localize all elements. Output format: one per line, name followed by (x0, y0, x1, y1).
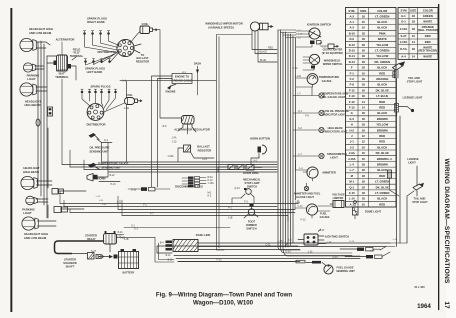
label cigar lighter (322, 49, 343, 55)
svg-text:18: 18 (362, 197, 366, 201)
svg-text:Q-10: Q-10 (234, 187, 240, 190)
svg-text:BALLAST: BALLAST (197, 145, 210, 149)
svg-text:L-14: L-14 (393, 239, 398, 241)
svg-text:1-14: 1-14 (388, 159, 393, 161)
svg-text:BLACK: BLACK (377, 26, 387, 30)
svg-text:SYM.: SYM. (348, 9, 355, 13)
horn ring contacts (228, 165, 254, 171)
svg-text:18: 18 (362, 123, 366, 127)
svg-text:F-13: F-13 (349, 94, 355, 98)
wire stop lamp switch leads (232, 197, 254, 204)
svg-text:ORANGE: ORANGE (376, 77, 388, 81)
label oil pressure sending unit (89, 146, 109, 154)
sidebar title WIRING DIAGRAM-SPECIFICATIONS (443, 158, 450, 283)
svg-text:18: 18 (362, 94, 366, 98)
dash line boundary (217, 35, 253, 251)
svg-text:J-1: J-1 (350, 140, 354, 144)
svg-text:D-10: D-10 (349, 49, 356, 53)
label coil (V8) (142, 22, 149, 26)
wire horn leads (98, 172, 121, 186)
svg-text:BLACK: BLACK (377, 197, 387, 201)
svg-text:TEMPERATURE AND: TEMPERATURE AND (322, 92, 348, 96)
wire harness group A left tails (62, 79, 108, 172)
wire temp gauge leads (296, 78, 313, 87)
svg-text:SPARK PLUGS: SPARK PLUGS (91, 85, 111, 89)
wire regulator leads (160, 81, 196, 134)
headlight high/low beam lower (22, 217, 38, 230)
wire rear lamps vertical run (397, 78, 418, 247)
spark plugs right bank (83, 31, 119, 53)
high beam indicator light (319, 127, 324, 132)
label engine (166, 90, 176, 94)
svg-text:14: 14 (362, 106, 366, 110)
starter solenoid (88, 253, 114, 260)
wire cigar lighter lead (320, 45, 328, 47)
svg-text:D-5A: D-5A (400, 47, 407, 51)
wire distributor V8 to coil (134, 44, 141, 53)
svg-text:14: 14 (412, 55, 416, 59)
svg-text:D-13: D-13 (349, 60, 356, 64)
label J-2A (172, 137, 177, 140)
svg-text:RESISTOR: RESISTOR (136, 59, 149, 63)
svg-text:J-2: J-2 (350, 145, 354, 149)
wire alternator to harness (47, 56, 76, 80)
label engine to ground cable (172, 74, 193, 84)
svg-text:LIGHT: LIGHT (408, 161, 416, 165)
wire group B risers (288, 200, 298, 221)
svg-text:12: 12 (362, 134, 366, 138)
svg-text:TERMINAL: TERMINAL (70, 54, 84, 58)
label high beam indicator light (325, 126, 348, 134)
svg-text:J-10A: J-10A (348, 157, 356, 161)
wire left risers to group B (60, 192, 122, 216)
svg-text:OIL GAUGE LIGHT: OIL GAUGE LIGHT (322, 95, 345, 99)
wire rear bottom bends (380, 243, 407, 250)
label ballast resistor (197, 145, 211, 153)
label dome light (365, 210, 382, 214)
horn (engine bay) (87, 174, 98, 182)
wire coil lead (131, 30, 160, 81)
svg-text:RIGHT BANK: RIGHT BANK (87, 20, 105, 24)
wire headlight1 leads (36, 42, 50, 48)
alternator (54, 42, 72, 71)
disconnect plugs stack (188, 177, 200, 188)
ammeter (307, 167, 318, 178)
svg-text:D-14: D-14 (286, 252, 292, 254)
svg-text:BATTERY: BATTERY (123, 271, 135, 275)
label J-2 (297, 38, 301, 40)
wire lower connectors to harness (48, 128, 86, 218)
wire lighting switch labels (288, 230, 332, 244)
svg-text:HIGH BEAM: HIGH BEAM (328, 126, 343, 130)
temperature and oil gauge light (319, 93, 324, 98)
label fuel gauge (320, 212, 330, 220)
svg-text:BLACK: BLACK (377, 66, 387, 70)
wire harness horizontal group B (60, 201, 298, 219)
oil pressure sending unit symbol (89, 133, 100, 140)
coil V8 (140, 26, 158, 34)
svg-text:F-8: F-8 (350, 83, 355, 87)
label S-1 relay wire (131, 226, 135, 228)
wire horn button to ring (251, 158, 259, 165)
svg-text:BLACK: BLACK (377, 20, 387, 24)
svg-text:DOME LIGHT: DOME LIGHT (365, 210, 382, 214)
wire lower lamp leads (36, 181, 56, 226)
label starter solenoid shaft (63, 258, 77, 269)
label J-1B lower (124, 238, 129, 241)
label 1-7 (297, 30, 301, 32)
label J-10 (172, 141, 177, 144)
svg-text:F: F (351, 66, 353, 70)
svg-text:COLOR: COLOR (423, 9, 433, 13)
label mechanical stop lamp switch (243, 178, 261, 189)
svg-text:F-13: F-13 (349, 106, 355, 110)
svg-text:Q-13: Q-13 (332, 257, 338, 259)
license light upper (395, 104, 415, 117)
svg-text:LIGHT: LIGHT (330, 156, 338, 160)
svg-text:SWITCH: SWITCH (246, 226, 256, 230)
label alternator (56, 38, 75, 42)
svg-text:DK. BLUE: DK. BLUE (376, 151, 389, 155)
figure caption line 2 (193, 300, 254, 307)
label headlight high and low beam (upper left) (29, 27, 53, 35)
svg-text:J-2A: J-2A (172, 137, 177, 140)
rear harness connectors (340, 248, 390, 259)
svg-text:LIMITER: LIMITER (333, 196, 344, 200)
svg-text:1964: 1964 (417, 303, 431, 310)
wire relay feeds (117, 228, 231, 238)
svg-text:STARTER: STARTER (64, 258, 76, 262)
mechanical stop lamp switch (241, 188, 254, 198)
svg-text:COIL: COIL (126, 93, 133, 97)
svg-text:18: 18 (362, 60, 366, 64)
svg-text:GROUND CABLE: GROUND CABLE (172, 79, 193, 82)
label B-4 (160, 243, 164, 245)
svg-text:B-12: B-12 (110, 175, 116, 177)
svg-text:LICENSE: LICENSE (407, 157, 419, 161)
svg-text:STOP LAMP: STOP LAMP (244, 181, 259, 185)
spark plugs (six) (81, 89, 117, 110)
svg-text:18: 18 (362, 49, 366, 53)
label battery BAT terminal (55, 69, 69, 79)
svg-text:WIPER SWITCH: WIPER SWITCH (323, 62, 343, 66)
connector left lower A (52, 189, 64, 195)
svg-text:G-5: G-5 (349, 117, 354, 121)
label 1-14 (388, 159, 393, 161)
svg-text:S-1: S-1 (134, 228, 138, 231)
voltage limiter (330, 201, 344, 208)
svg-text:TAIL AND: TAIL AND (414, 197, 426, 201)
svg-text:DISTRIBUTOR: DISTRIBUTOR (97, 50, 116, 54)
connector left lower B (54, 207, 68, 213)
label temperature gauge sending unit (98, 162, 129, 170)
svg-text:WIRING DIAGRAM—SPECIFICATIONS: WIRING DIAGRAM—SPECIFICATIONS (443, 158, 450, 283)
svg-text:BLACK: BLACK (377, 83, 387, 87)
svg-text:GREEN: GREEN (423, 14, 433, 18)
svg-text:RED: RED (379, 174, 385, 178)
ballast resistor (184, 145, 192, 152)
temperature sending unit symbol (88, 163, 100, 170)
starter relay (104, 231, 117, 252)
distributor (V8) (117, 39, 134, 56)
svg-text:YELLOW: YELLOW (376, 54, 388, 58)
wire oil sender to harness (97, 139, 112, 162)
svg-text:F-13: F-13 (217, 260, 222, 262)
svg-text:STOP LIGHT: STOP LIGHT (412, 200, 428, 204)
wire ignition leads (296, 31, 322, 47)
label Q-10 (234, 187, 240, 190)
low oil pressure indicator light (319, 110, 324, 115)
headlight high/low beam upper (20, 38, 36, 51)
svg-text:17: 17 (443, 301, 450, 309)
label F-2 dimmer (244, 202, 248, 204)
speedometer light (319, 153, 324, 158)
label lighting switch (325, 235, 349, 239)
svg-text:SIZE: SIZE (360, 9, 366, 13)
svg-text:STOP LIGHT: STOP LIGHT (407, 80, 423, 84)
label B-14 (166, 255, 172, 257)
label parking light (lower) (22, 208, 35, 216)
svg-text:LEFT BANK: LEFT BANK (87, 70, 103, 74)
label horn ring (243, 171, 258, 175)
svg-text:LIGHTING SWITCH: LIGHTING SWITCH (325, 235, 349, 239)
label distributor (six) (86, 123, 105, 127)
wire rear harness group (157, 243, 390, 262)
svg-text:RED: RED (379, 106, 385, 110)
svg-text:RED: RED (425, 34, 431, 38)
svg-text:OIL PRESSURE: OIL PRESSURE (90, 146, 110, 150)
label headlight high beam (upper) (24, 100, 41, 108)
svg-text:WINDSHIELD WIPER MOTOR: WINDSHIELD WIPER MOTOR (205, 22, 242, 26)
svg-text:SHAFT: SHAFT (66, 265, 75, 269)
svg-text:D-14: D-14 (350, 241, 356, 243)
license light lower connector (388, 170, 400, 196)
battery (119, 249, 139, 269)
svg-text:DIMMER: DIMMER (246, 223, 257, 227)
svg-text:J-13: J-13 (202, 158, 207, 161)
svg-text:LOW OIL PRESSURE: LOW OIL PRESSURE (323, 109, 349, 113)
svg-text:LIGHT: LIGHT (27, 77, 36, 81)
svg-text:HORN RING: HORN RING (243, 171, 258, 175)
svg-text:SENDING UNIT: SENDING UNIT (336, 269, 355, 273)
distributor (six) (87, 104, 104, 121)
svg-text:18: 18 (412, 19, 416, 23)
svg-text:18: 18 (412, 27, 416, 31)
svg-text:10: 10 (362, 202, 366, 206)
svg-text:GAUGE LIGHT: GAUGE LIGHT (296, 195, 314, 199)
wire main dash harness bundle (278, 30, 360, 256)
connector pair D-10 (128, 187, 170, 191)
svg-text:FUEL: FUEL (320, 212, 327, 216)
svg-text:B-6A: B-6A (208, 176, 214, 179)
svg-text:TAIL AND: TAIL AND (408, 76, 420, 80)
label spark plugs left bank (85, 67, 105, 75)
svg-text:STARTER: STARTER (85, 233, 97, 237)
bulkhead connector block (166, 240, 199, 252)
label coil (six) (126, 93, 133, 97)
label battery (123, 271, 135, 275)
wire ammeter leads (296, 160, 313, 181)
wire oil light lead (293, 111, 319, 118)
wire left harness verticals (38, 41, 47, 218)
svg-text:18: 18 (362, 77, 366, 81)
svg-text:L-11: L-11 (117, 201, 122, 203)
svg-text:RED: RED (379, 134, 385, 138)
svg-text:AMMETER AND FUEL: AMMETER AND FUEL (294, 192, 321, 196)
label tail and stop light upper (407, 76, 423, 84)
svg-text:(IF SO EQUIPPED): (IF SO EQUIPPED) (322, 52, 343, 55)
label field FLD terminal (70, 48, 84, 58)
svg-text:RED: RED (425, 40, 431, 44)
svg-text:H-1: H-1 (401, 14, 406, 18)
svg-text:18: 18 (362, 83, 366, 87)
svg-text:7-10A: 7-10A (208, 182, 215, 185)
svg-text:FOOT: FOOT (248, 220, 256, 224)
svg-text:X-15: X-15 (349, 191, 355, 195)
label horn (98, 177, 106, 181)
windshield wiper switch (309, 54, 319, 68)
svg-text:TEMPERATURE: TEMPERATURE (319, 75, 339, 79)
svg-text:RESISTOR: RESISTOR (198, 148, 212, 152)
svg-text:L-13: L-13 (320, 230, 325, 232)
svg-text:MECHANICAL: MECHANICAL (243, 178, 261, 182)
svg-text:LT. GREEN: LT. GREEN (375, 49, 389, 53)
svg-text:16: 16 (362, 145, 366, 149)
engine ground arrow (167, 84, 176, 90)
label foot dimmer switch (246, 220, 257, 231)
grommet on left harness (36, 119, 40, 126)
svg-text:ENGINE TO: ENGINE TO (175, 75, 189, 79)
label dash line (196, 233, 211, 237)
svg-text:FUEL GAUGE: FUEL GAUGE (337, 266, 354, 270)
wire bundle top fanout (278, 30, 296, 38)
svg-text:SIZE: SIZE (410, 9, 416, 13)
svg-text:(WHL. TRACER): (WHL. TRACER) (418, 28, 438, 32)
label license light lower (407, 157, 419, 165)
battery ground cable loop (55, 241, 104, 254)
svg-text:14: 14 (412, 40, 416, 44)
svg-text:18: 18 (362, 117, 366, 121)
svg-text:12: 12 (362, 140, 366, 144)
label distributor (V8) (97, 50, 116, 54)
svg-text:18: 18 (362, 43, 366, 47)
svg-text:G: G (351, 111, 353, 115)
label horn button (250, 137, 270, 141)
wire horn ring leads (218, 167, 262, 172)
tail and stop light lower (407, 183, 424, 243)
svg-text:18: 18 (362, 14, 366, 18)
svg-text:(VARIABLE SPEED): (VARIABLE SPEED) (208, 25, 233, 29)
label B-10 relay (118, 232, 124, 234)
label S-1 (134, 228, 138, 231)
label spark plugs (six) (91, 85, 111, 89)
svg-text:LT. GREEN: LT. GREEN (375, 14, 389, 18)
svg-text:16: 16 (362, 157, 366, 161)
label Q-1 oil (104, 139, 109, 142)
svg-text:BROWN: BROWN (377, 163, 388, 167)
wire headlight2 leads (36, 87, 47, 91)
svg-text:HIGH BEAM: HIGH BEAM (23, 170, 40, 174)
label temperature and oil gauge light (322, 92, 348, 100)
svg-text:BLACK: BLACK (259, 51, 267, 54)
svg-text:IGNITION SWITCH: IGNITION SWITCH (307, 23, 331, 27)
svg-text:L-10: L-10 (308, 252, 313, 254)
horn button (258, 145, 267, 158)
sidebar divider rule (438, 4, 439, 310)
svg-text:J-9A: J-9A (349, 151, 355, 155)
svg-text:L-12: L-12 (96, 196, 101, 198)
svg-text:L-4: L-4 (350, 163, 355, 167)
svg-text:DK. GREEN: DK. GREEN (374, 60, 390, 64)
svg-text:BLACK: BLACK (377, 111, 387, 115)
alternator regulator (182, 116, 195, 128)
svg-text:GAUGE: GAUGE (320, 215, 330, 219)
label headlight high and low beam (lower) (24, 232, 48, 240)
svg-text:LT. GREEN: LT. GREEN (375, 180, 389, 184)
svg-text:61 x 400: 61 x 400 (414, 285, 425, 289)
svg-text:H-2: H-2 (349, 128, 354, 132)
label alternator regulator (174, 128, 210, 132)
svg-text:DK. BLUE: DK. BLUE (376, 88, 389, 92)
svg-text:AND LOW BEAM: AND LOW BEAM (29, 31, 52, 35)
windshield wiper motor (250, 22, 273, 31)
svg-text:VOLTAGE: VOLTAGE (332, 193, 345, 197)
svg-text:B-14: B-14 (166, 255, 172, 257)
wire temp light lead (293, 87, 319, 96)
wire bulkhead nested verticals (155, 237, 174, 262)
label L-13 cluster (102, 204, 107, 206)
svg-text:SWITCH: SWITCH (247, 184, 257, 188)
svg-text:D-14: D-14 (349, 54, 356, 58)
svg-text:PINK: PINK (379, 31, 386, 35)
svg-text:ENGINE: ENGINE (166, 90, 176, 94)
svg-text:H: H (351, 123, 353, 127)
svg-text:18: 18 (362, 31, 366, 35)
wire ballast leads (178, 148, 214, 162)
label L-12 cluster (96, 196, 101, 198)
svg-text:J-10: J-10 (172, 141, 177, 144)
page border left rule (10, 8, 12, 312)
svg-text:F-12: F-12 (349, 88, 355, 92)
svg-text:18: 18 (362, 66, 366, 70)
label temperature gauge (319, 75, 339, 83)
svg-text:L-13: L-13 (278, 241, 283, 243)
svg-text:LT. GREEN: LT. GREEN (375, 191, 389, 195)
svg-text:COIL: COIL (142, 22, 149, 26)
wire engine top run (104, 81, 216, 162)
svg-text:H-13: H-13 (111, 184, 117, 186)
svg-text:SYM: SYM (400, 9, 407, 13)
svg-text:18: 18 (362, 111, 366, 115)
svg-text:F-12: F-12 (301, 220, 306, 222)
wire speedometer light lead (293, 154, 319, 156)
tail and stop light upper (393, 61, 406, 78)
svg-text:J-10A: J-10A (400, 27, 408, 31)
svg-text:D-9: D-9 (349, 37, 354, 41)
fuel gauge (306, 204, 317, 215)
svg-text:BROWN: BROWN (377, 117, 388, 121)
svg-text:TERMINAL: TERMINAL (55, 75, 69, 79)
label dash (182, 62, 201, 96)
cigar lighter (322, 44, 339, 49)
label license light upper (403, 96, 423, 100)
svg-text:18: 18 (362, 185, 366, 189)
label speedometer light (327, 152, 347, 160)
svg-text:A-2: A-2 (349, 14, 354, 18)
label tail and stop light lower (412, 197, 428, 205)
svg-text:WINDSHIELD: WINDSHIELD (324, 59, 341, 63)
svg-text:F-2: F-2 (350, 77, 355, 81)
